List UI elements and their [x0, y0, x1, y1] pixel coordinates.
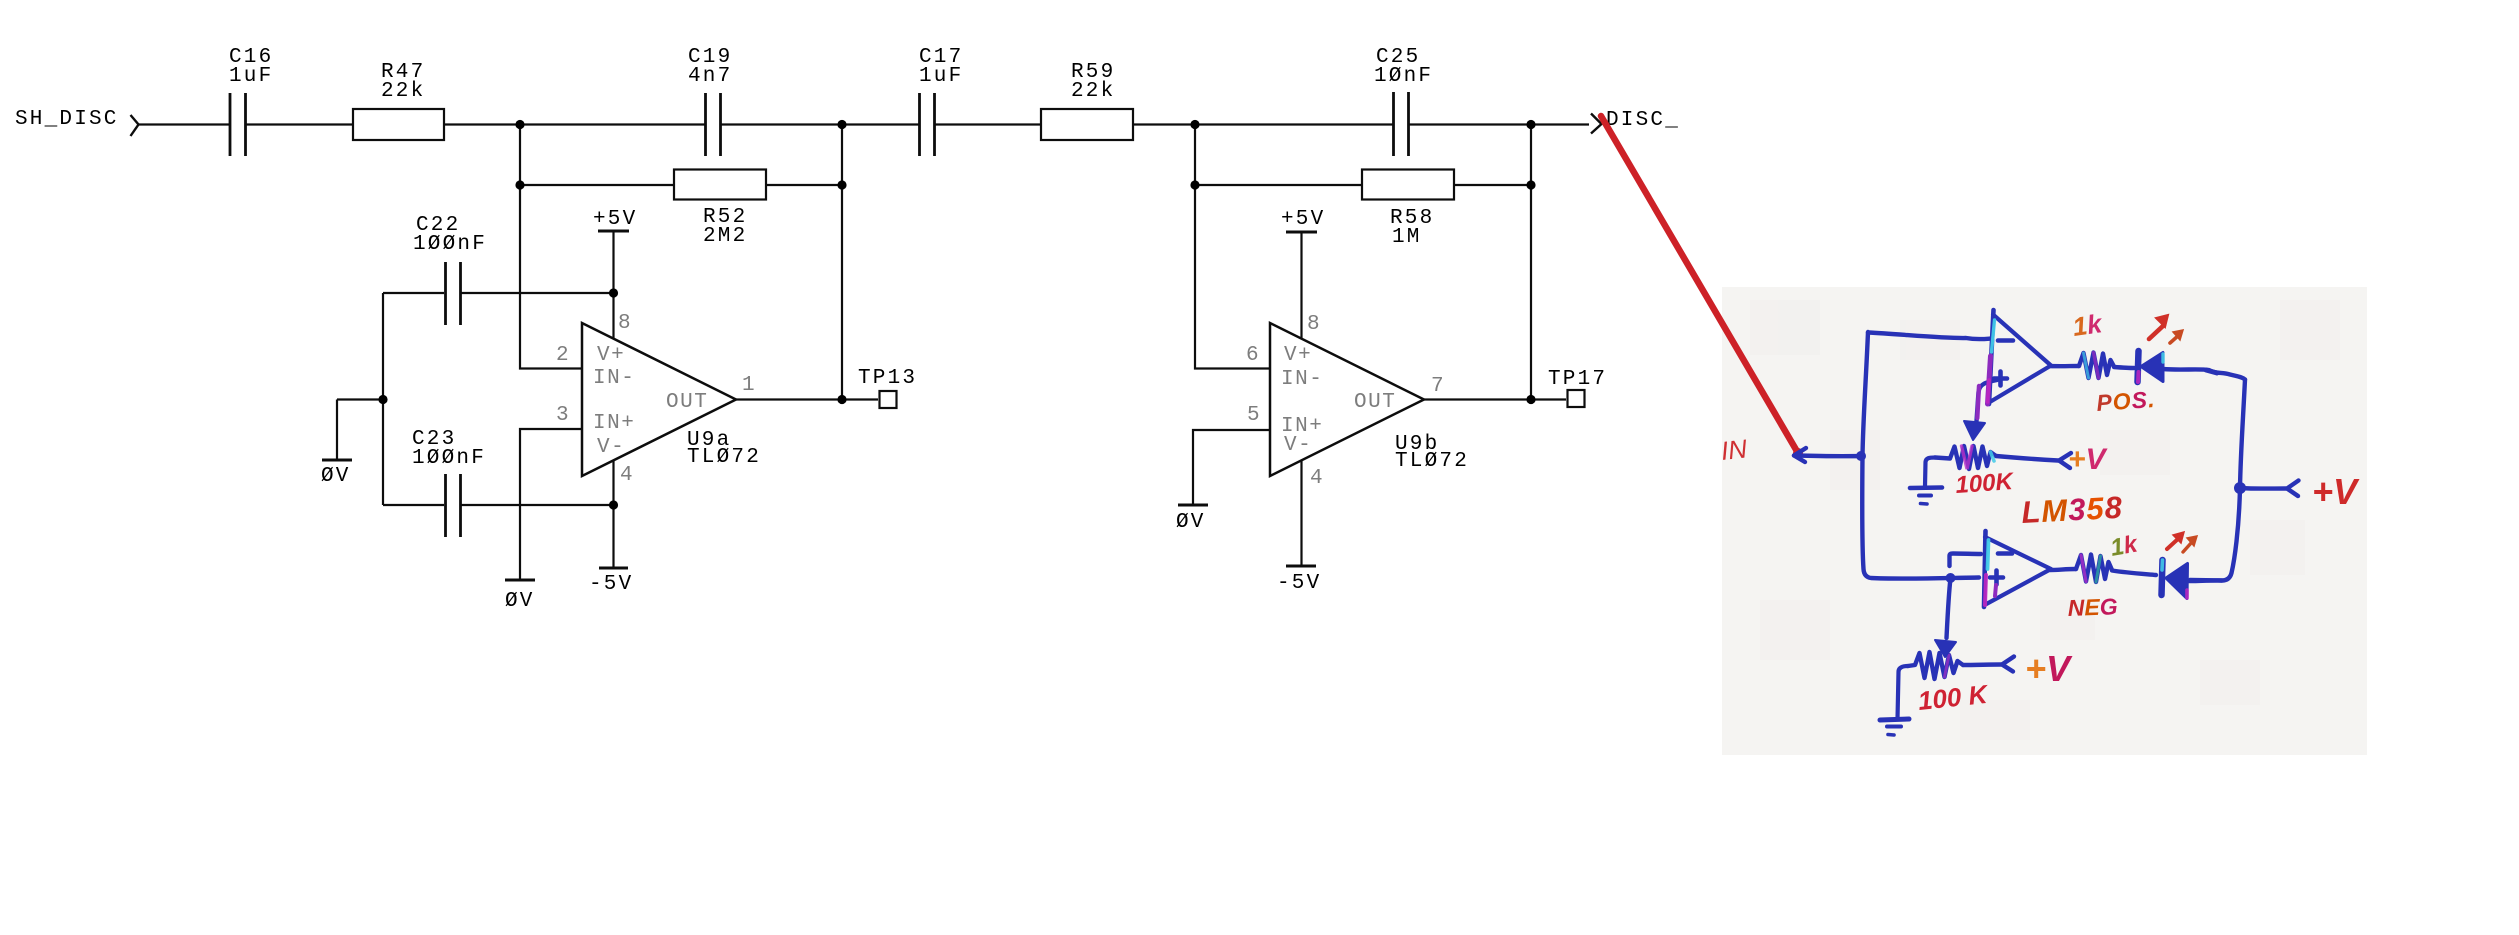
svg-text:5: 5	[1247, 404, 1261, 427]
svg-text:OUT: OUT	[666, 391, 708, 414]
svg-text:1uF: 1uF	[919, 65, 963, 88]
svg-text:ØV: ØV	[1176, 511, 1206, 534]
svg-text:POS.: POS.	[2096, 386, 2157, 416]
svg-text:1uF: 1uF	[229, 65, 273, 88]
svg-text:3: 3	[556, 404, 570, 427]
svg-text:22k: 22k	[1071, 80, 1115, 103]
svg-text:2M2: 2M2	[703, 225, 747, 248]
svg-text:1k: 1k	[2071, 308, 2105, 342]
svg-text:1M: 1M	[1392, 226, 1422, 249]
svg-text:8: 8	[1307, 313, 1321, 336]
svg-text:TP17: TP17	[1548, 368, 1607, 391]
svg-text:8: 8	[618, 312, 632, 335]
svg-text:1ØnF: 1ØnF	[1374, 65, 1433, 88]
svg-text:TLØ72: TLØ72	[1395, 450, 1469, 473]
svg-text:+5V: +5V	[1281, 208, 1325, 231]
svg-text:ØV: ØV	[505, 590, 535, 613]
svg-text:-5V: -5V	[1277, 572, 1321, 595]
svg-text:V-: V-	[597, 436, 625, 459]
svg-text:6: 6	[1246, 344, 1260, 367]
svg-text:100K: 100K	[1955, 468, 2016, 499]
svg-text:+V: +V	[2312, 471, 2360, 512]
svg-text:IN: IN	[1719, 433, 1748, 466]
svg-text:TP13: TP13	[858, 367, 917, 390]
svg-text:7: 7	[1431, 375, 1445, 398]
svg-text:OUT: OUT	[1354, 391, 1396, 414]
svg-text:+V: +V	[2068, 443, 2109, 476]
svg-text:NEG: NEG	[2067, 593, 2118, 621]
svg-text:1ØØnF: 1ØØnF	[412, 447, 486, 470]
svg-text:1: 1	[742, 374, 756, 397]
svg-text:ØV: ØV	[321, 465, 351, 488]
svg-text:-5V: -5V	[589, 573, 633, 596]
svg-text:IN-: IN-	[1281, 368, 1323, 391]
svg-text:22k: 22k	[381, 80, 425, 103]
svg-text:+V: +V	[2025, 648, 2073, 689]
svg-text:IN-: IN-	[593, 367, 635, 390]
svg-text:4: 4	[620, 464, 634, 487]
svg-text:V-: V-	[1284, 434, 1312, 457]
svg-text:V+: V+	[1284, 344, 1312, 367]
svg-text:DISC_: DISC_	[1606, 109, 1680, 132]
svg-text:IN+: IN+	[593, 412, 635, 435]
svg-text:SH_DISC: SH_DISC	[15, 108, 119, 131]
svg-text:+5V: +5V	[593, 208, 637, 231]
svg-text:4: 4	[1310, 467, 1324, 490]
svg-text:TLØ72: TLØ72	[687, 446, 761, 469]
svg-text:2: 2	[556, 344, 570, 367]
svg-text:1ØØnF: 1ØØnF	[413, 233, 487, 256]
svg-text:LM358: LM358	[2021, 490, 2124, 530]
svg-text:4n7: 4n7	[688, 65, 732, 88]
svg-text:V+: V+	[597, 344, 625, 367]
